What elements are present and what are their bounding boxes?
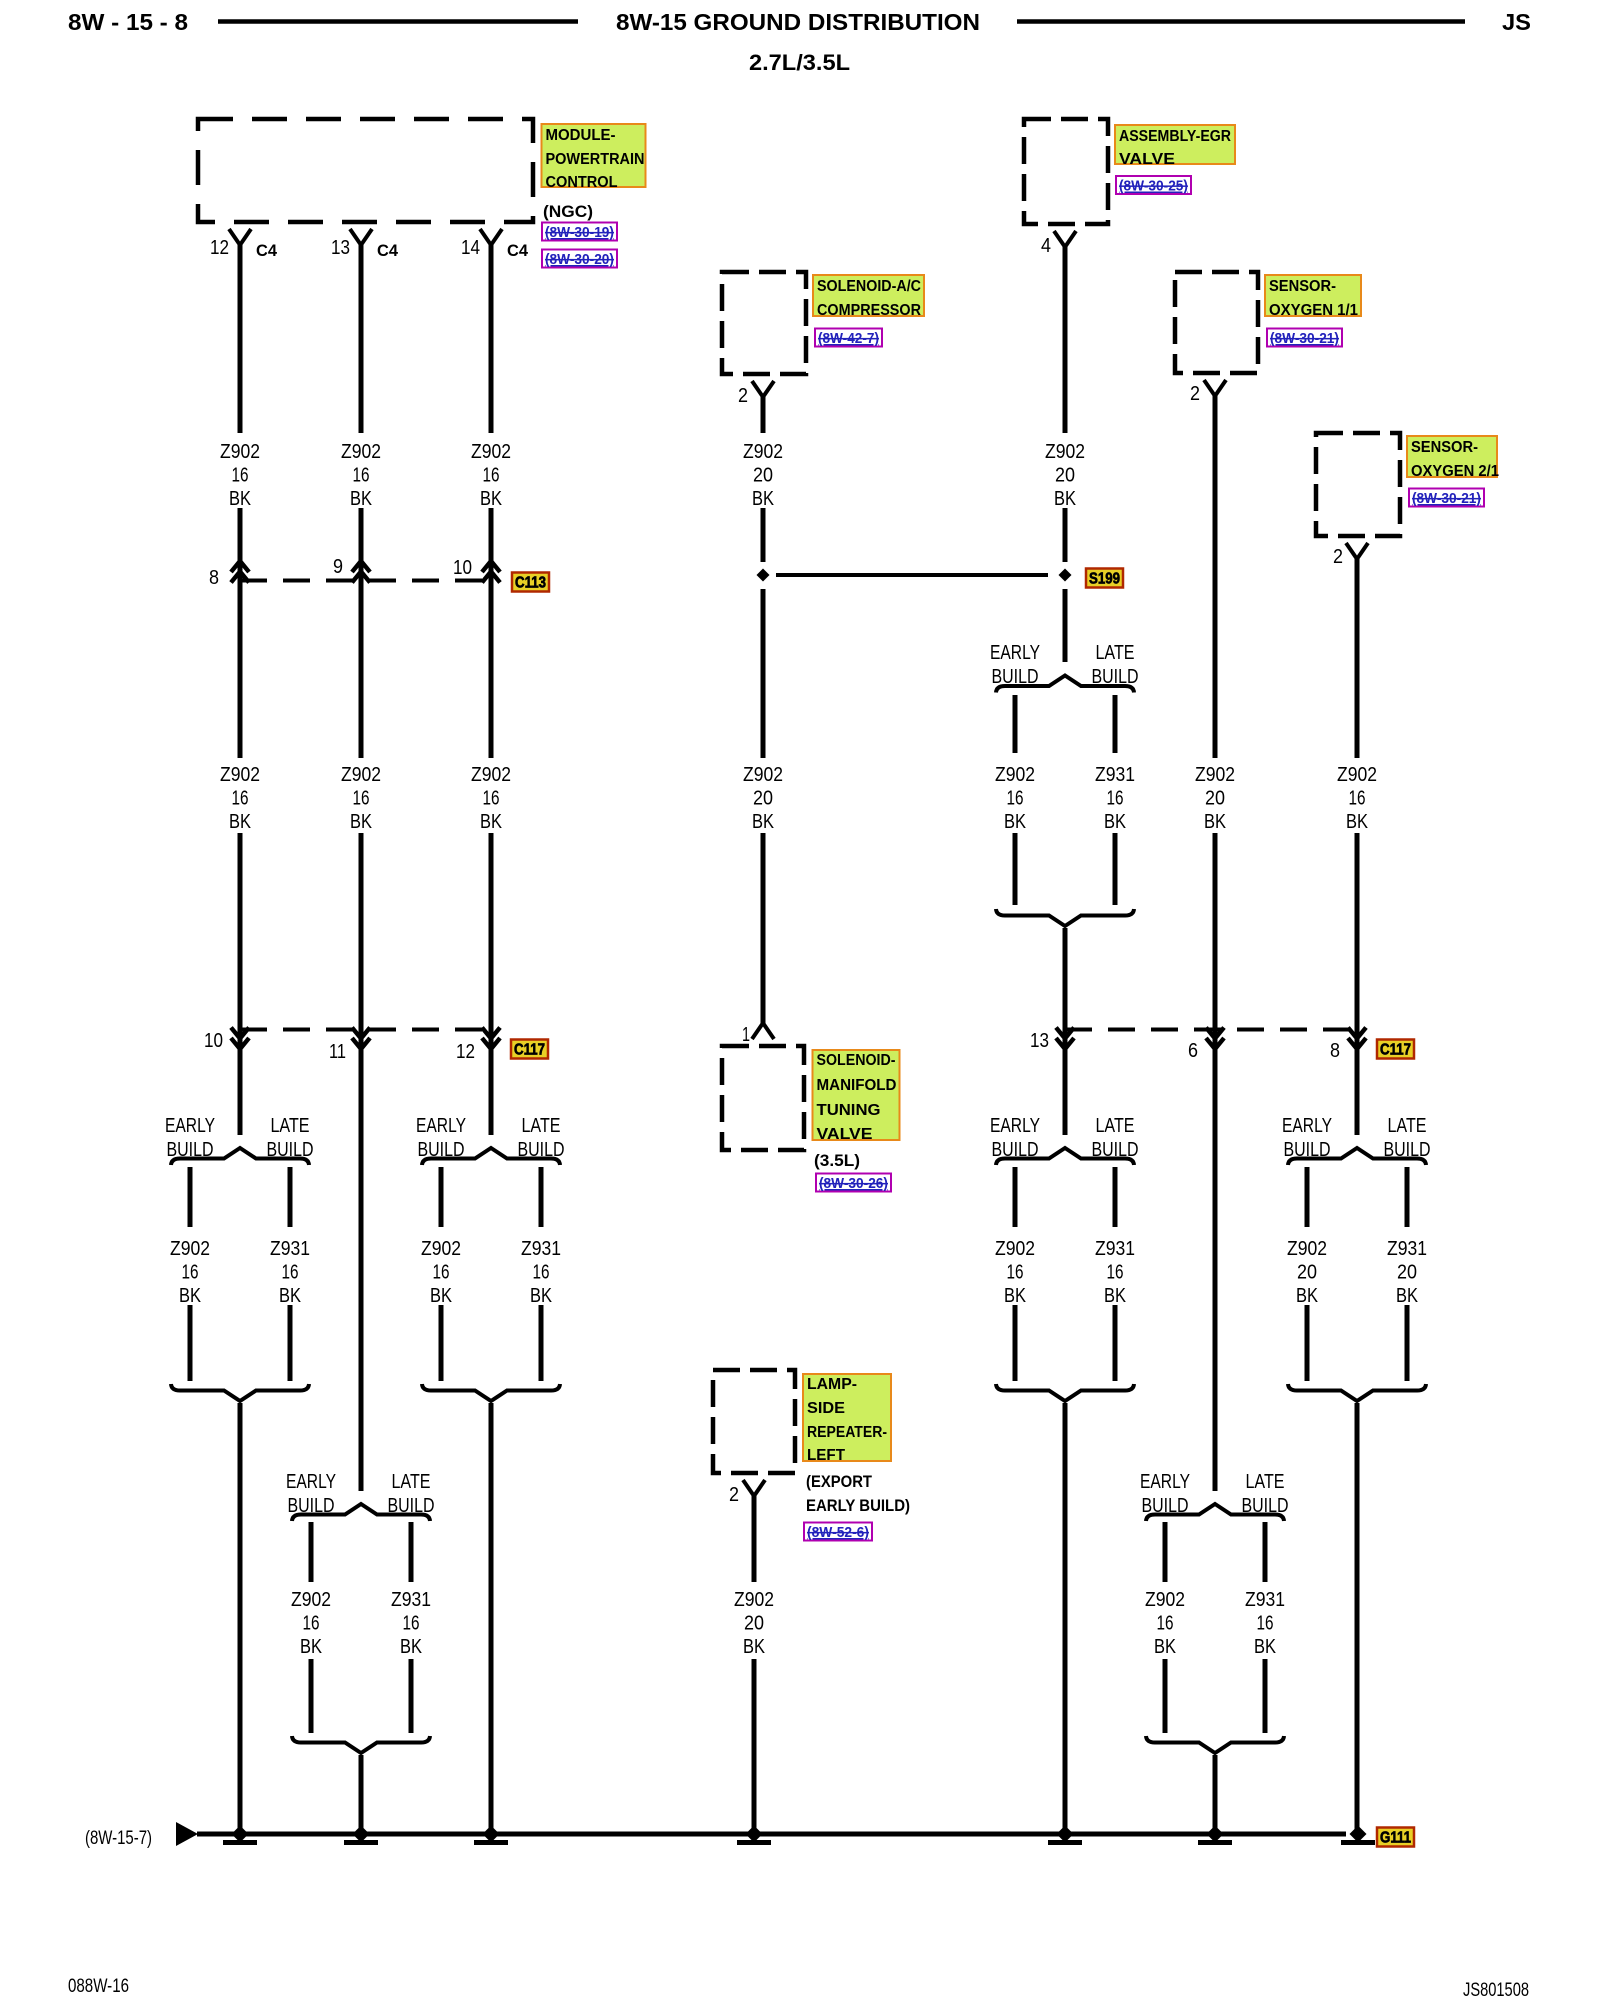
svg-text:8: 8 <box>1330 1040 1340 1062</box>
svg-text:(8W-30-26): (8W-30-26) <box>819 1175 888 1192</box>
svg-text:C113: C113 <box>515 575 546 592</box>
header rule right <box>1017 19 1465 24</box>
svg-text:Z902: Z902 <box>743 441 783 463</box>
svg-text:Z902: Z902 <box>1145 1589 1185 1611</box>
off-page reference (8W-15-7) <box>85 1828 152 1849</box>
svg-text:(NGC): (NGC) <box>543 202 593 221</box>
svg-text:MODULE-: MODULE- <box>546 127 616 144</box>
split early/late build (wire 2) <box>286 1471 435 1753</box>
svg-text:Z902: Z902 <box>1287 1238 1327 1260</box>
svg-text:10: 10 <box>204 1030 223 1052</box>
svg-text:BK: BK <box>1296 1285 1319 1307</box>
connector C117 pin 8 terminals <box>1330 1028 1366 1063</box>
svg-text:BK: BK <box>430 1285 453 1307</box>
svg-text:S199: S199 <box>1089 571 1120 588</box>
svg-text:Z902: Z902 <box>421 1238 461 1260</box>
svg-text:BUILD: BUILD <box>992 1139 1039 1161</box>
svg-text:Z902: Z902 <box>1195 764 1235 786</box>
svg-text:BK: BK <box>1204 811 1227 833</box>
title text 8W - 15 - 8 <box>68 9 188 35</box>
svg-text:VALVE: VALVE <box>1119 151 1175 168</box>
svg-text:Z902: Z902 <box>471 764 511 786</box>
connector C113 dashed link <box>240 579 491 583</box>
svg-text:LEFT: LEFT <box>807 1447 846 1464</box>
svg-text:SENSOR-: SENSOR- <box>1269 278 1336 295</box>
svg-text:BK: BK <box>1104 811 1127 833</box>
wire Z902 16 BK (wire 5 to ground bus) <box>1063 1403 1068 1832</box>
svg-text:BUILD: BUILD <box>388 1495 435 1517</box>
svg-text:BK: BK <box>1104 1285 1127 1307</box>
svg-text:4: 4 <box>1041 235 1051 257</box>
ground bus wire to G111 <box>197 1832 1346 1837</box>
connector C117 right dashed link <box>1065 1028 1357 1032</box>
split early/late build (wire 5 upper) <box>990 642 1139 926</box>
svg-text:BK: BK <box>1154 1636 1177 1658</box>
svg-text:BUILD: BUILD <box>1092 666 1139 688</box>
label C117 (left) <box>511 1040 548 1059</box>
label C117 (right) <box>1377 1040 1414 1059</box>
svg-text:Z902: Z902 <box>743 764 783 786</box>
svg-text:BK: BK <box>752 488 775 510</box>
svg-text:Z902: Z902 <box>291 1589 331 1611</box>
svg-text:Z902: Z902 <box>341 441 381 463</box>
svg-text:Z902: Z902 <box>995 1238 1035 1260</box>
svg-text:BUILD: BUILD <box>1142 1495 1189 1517</box>
svg-text:Z902: Z902 <box>220 764 260 786</box>
svg-text:Z902: Z902 <box>995 764 1035 786</box>
ground junction G111 (wire 2) <box>344 1826 378 1846</box>
svg-text:(8W-30-21): (8W-30-21) <box>1412 490 1481 507</box>
svg-text:(3.5L): (3.5L) <box>814 1151 860 1170</box>
label MODULE-POWERTRAIN CONTROL <box>542 124 646 221</box>
wire Z902 16 BK (PCM pin 13, x=361) <box>341 245 381 1491</box>
svg-text:BK: BK <box>743 1636 766 1658</box>
svg-text:SENSOR-: SENSOR- <box>1411 439 1478 456</box>
ground junction G111 (wire 1) <box>223 1826 257 1846</box>
connector C117 pin 11 terminals <box>329 1028 370 1064</box>
label C113 <box>512 573 549 592</box>
svg-text:BUILD: BUILD <box>167 1139 214 1161</box>
splice S199 link wire Z902 20 BK <box>757 569 1072 582</box>
svg-text:2.7L/3.5L: 2.7L/3.5L <box>749 50 850 75</box>
split early/late build (wire 1) <box>165 1115 314 1401</box>
hyperlink 8W-30-20 <box>542 250 617 269</box>
svg-text:BUILD: BUILD <box>992 666 1039 688</box>
svg-text:20: 20 <box>753 788 773 810</box>
svg-text:Z931: Z931 <box>521 1238 561 1260</box>
svg-text:16: 16 <box>1107 788 1124 810</box>
svg-text:6: 6 <box>1188 1040 1198 1062</box>
hyperlink 8W-30-26 <box>816 1174 891 1193</box>
svg-text:20: 20 <box>1397 1262 1417 1284</box>
svg-text:EARLY: EARLY <box>990 1115 1040 1137</box>
svg-text:ASSEMBLY-EGR: ASSEMBLY-EGR <box>1119 128 1231 145</box>
svg-text:Z931: Z931 <box>1245 1589 1285 1611</box>
svg-text:BK: BK <box>229 488 252 510</box>
hyperlink 8W-30-21 (O2 2/1) <box>1409 489 1484 508</box>
svg-text:Z902: Z902 <box>220 441 260 463</box>
ground junction G111 (wire 6) <box>1198 1826 1232 1846</box>
svg-text:BK: BK <box>1396 1285 1419 1307</box>
title text 8W-15 GROUND DISTRIBUTION <box>616 9 980 35</box>
svg-text:(EXPORT: (EXPORT <box>806 1472 873 1491</box>
svg-text:(8W-15-7): (8W-15-7) <box>85 1828 152 1849</box>
svg-text:(8W-30-21): (8W-30-21) <box>1270 330 1339 347</box>
manifold tuning valve pin 1 <box>742 1023 774 1046</box>
svg-text:12: 12 <box>456 1041 475 1063</box>
svg-text:BK: BK <box>300 1636 323 1658</box>
svg-text:C117: C117 <box>1380 1042 1411 1059</box>
svg-text:BUILD: BUILD <box>1242 1495 1289 1517</box>
wire Z902 16 BK (wire 6 to ground bus) <box>1213 1755 1218 1832</box>
svg-text:BK: BK <box>480 811 503 833</box>
hyperlink 8W-30-19 <box>542 223 617 242</box>
svg-text:11: 11 <box>329 1041 346 1063</box>
O2 1/1 pin 2 <box>1190 380 1226 405</box>
svg-text:Z902: Z902 <box>341 764 381 786</box>
A/C compressor pin 2 <box>738 381 774 407</box>
svg-text:Z931: Z931 <box>1095 764 1135 786</box>
svg-text:Z902: Z902 <box>1337 764 1377 786</box>
split early/late build (wire 6) <box>1140 1471 1289 1753</box>
hyperlink 8W-30-21 (O2 1/1) <box>1267 329 1342 348</box>
label SOLENOID-MANIFOLD TUNING VALVE <box>813 1050 900 1170</box>
ground junction G111 (wire 5) <box>1048 1826 1082 1846</box>
wire Z902 16 BK (O2 sensor 2/1 pin 2, x=1357) <box>1337 559 1377 1135</box>
svg-text:REPEATER-: REPEATER- <box>807 1424 887 1441</box>
svg-text:Z931: Z931 <box>1387 1238 1427 1260</box>
svg-text:BK: BK <box>530 1285 553 1307</box>
svg-text:BK: BK <box>179 1285 202 1307</box>
svg-text:BK: BK <box>229 811 252 833</box>
svg-text:20: 20 <box>1297 1262 1317 1284</box>
wire Z902 20 BK (A/C compressor to S199 to manifold valve, x=763) <box>743 397 783 1024</box>
svg-text:16: 16 <box>1007 788 1024 810</box>
svg-text:9: 9 <box>333 556 343 578</box>
svg-text:2: 2 <box>1190 383 1200 405</box>
svg-text:14: 14 <box>461 237 480 259</box>
svg-text:20: 20 <box>744 1613 764 1635</box>
svg-text:SOLENOID-: SOLENOID- <box>817 1052 896 1069</box>
connector C113 pin 10 terminals <box>453 557 500 583</box>
ground junction G111 (lamp wire) <box>737 1826 771 1846</box>
svg-text:LATE: LATE <box>1096 642 1135 664</box>
svg-text:LAMP-: LAMP- <box>807 1376 857 1393</box>
footer sheet number 088W-16 <box>68 1976 129 1997</box>
connector C117 pin 6 terminals <box>1188 1028 1224 1063</box>
svg-text:Z902: Z902 <box>1045 441 1085 463</box>
split early/late build (wire 5 lower) <box>990 1115 1139 1401</box>
component LAMP-SIDE REPEATER-LEFT box <box>713 1370 795 1473</box>
svg-text:16: 16 <box>1157 1613 1174 1635</box>
svg-text:8W - 15 - 8: 8W - 15 - 8 <box>68 9 188 35</box>
svg-text:Z931: Z931 <box>1095 1238 1135 1260</box>
svg-text:16: 16 <box>1107 1262 1124 1284</box>
EGR pin 4 <box>1041 231 1076 257</box>
svg-text:G111: G111 <box>1380 1830 1411 1847</box>
svg-text:2: 2 <box>729 1484 739 1506</box>
svg-text:16: 16 <box>1349 788 1366 810</box>
svg-text:CONTROL: CONTROL <box>546 174 618 191</box>
wire Z902 16 BK (wire 5 between merges) <box>1063 928 1068 1135</box>
svg-text:EARLY: EARLY <box>990 642 1040 664</box>
svg-text:16: 16 <box>1257 1613 1274 1635</box>
svg-text:COMPRESSOR: COMPRESSOR <box>817 302 921 319</box>
title text JS <box>1502 9 1531 35</box>
wire Z902 16 BK (wire 7 to ground bus) <box>1355 1403 1360 1832</box>
svg-text:BK: BK <box>1346 811 1369 833</box>
svg-text:BK: BK <box>350 811 373 833</box>
svg-text:12: 12 <box>210 237 229 259</box>
svg-text:Z931: Z931 <box>270 1238 310 1260</box>
svg-text:EARLY: EARLY <box>1140 1471 1190 1493</box>
svg-text:C4: C4 <box>377 241 399 260</box>
hyperlink 8W-30-25 <box>1116 176 1191 195</box>
hyperlink 8W-42-7 <box>815 329 882 348</box>
svg-text:BK: BK <box>752 811 775 833</box>
svg-text:(8W-52-6): (8W-52-6) <box>807 1524 869 1541</box>
svg-text:TUNING: TUNING <box>817 1102 881 1119</box>
ground junction G111 (wire 3) <box>474 1826 508 1846</box>
label ASSEMBLY-EGR VALVE <box>1115 125 1235 168</box>
svg-text:20: 20 <box>753 465 773 487</box>
svg-text:16: 16 <box>533 1262 550 1284</box>
svg-text:EARLY: EARLY <box>286 1471 336 1493</box>
svg-text:LATE: LATE <box>271 1115 310 1137</box>
svg-text:JS801508: JS801508 <box>1463 1980 1529 2000</box>
svg-text:BUILD: BUILD <box>1284 1139 1331 1161</box>
hyperlink 8W-52-6 <box>804 1523 872 1542</box>
svg-text:Z902: Z902 <box>471 441 511 463</box>
connector C117 pin 13 terminals <box>1030 1028 1074 1053</box>
svg-text:1: 1 <box>742 1024 750 1046</box>
svg-text:BK: BK <box>480 488 503 510</box>
wire Z902 16 BK (wire 2 to ground bus) <box>359 1755 364 1832</box>
svg-text:10: 10 <box>453 557 472 579</box>
wire Z902 16 BK (PCM pin 12, x=240) <box>220 245 260 1135</box>
svg-text:LATE: LATE <box>1246 1471 1285 1493</box>
svg-text:(8W-30-25): (8W-30-25) <box>1119 178 1188 195</box>
svg-text:16: 16 <box>483 788 500 810</box>
svg-text:BK: BK <box>350 488 373 510</box>
wire Z902 20 BK (O2 sensor 1/1 pin 2, x=1215) <box>1195 396 1235 1491</box>
svg-text:LATE: LATE <box>392 1471 431 1493</box>
svg-text:LATE: LATE <box>522 1115 561 1137</box>
header rule left <box>218 19 578 24</box>
connector C113 pin 8 terminals <box>209 561 249 589</box>
svg-text:MANIFOLD: MANIFOLD <box>817 1077 897 1094</box>
svg-text:BUILD: BUILD <box>267 1139 314 1161</box>
wire Z902 16 BK (wire 3 to ground bus) <box>489 1403 494 1832</box>
component ASSEMBLY-EGR VALVE box <box>1024 119 1108 224</box>
wire Z902 20 BK (lamp repeater pin 2 to ground bus, x=754) <box>734 1496 774 1832</box>
svg-text:BK: BK <box>1054 488 1077 510</box>
svg-text:(8W-30-20): (8W-30-20) <box>545 251 614 268</box>
svg-text:OXYGEN 2/1: OXYGEN 2/1 <box>1411 463 1499 480</box>
svg-text:16: 16 <box>433 1262 450 1284</box>
svg-text:(8W-30-19): (8W-30-19) <box>545 224 614 241</box>
connector C117 pin 12 terminals <box>456 1028 500 1064</box>
svg-text:16: 16 <box>182 1262 199 1284</box>
connector C113 pin 9 terminals <box>333 556 370 583</box>
svg-text:Z902: Z902 <box>734 1589 774 1611</box>
split early/late build (wire 3) <box>416 1115 565 1401</box>
svg-text:16: 16 <box>483 465 500 487</box>
svg-text:LATE: LATE <box>1388 1115 1427 1137</box>
svg-text:BK: BK <box>1004 1285 1027 1307</box>
wire Z902 16 BK (PCM pin 14, x=491) <box>471 245 511 1135</box>
svg-text:SIDE: SIDE <box>807 1400 845 1417</box>
svg-text:2: 2 <box>1333 546 1343 568</box>
svg-text:13: 13 <box>331 237 350 259</box>
connector C4 pin 12 <box>210 229 278 260</box>
svg-text:EARLY: EARLY <box>416 1115 466 1137</box>
svg-text:Z902: Z902 <box>170 1238 210 1260</box>
label G111 ground <box>1377 1828 1414 1847</box>
svg-text:EARLY BUILD): EARLY BUILD) <box>806 1496 910 1515</box>
connector C117 pin 10 terminals <box>204 1028 249 1053</box>
svg-text:16: 16 <box>232 465 249 487</box>
svg-text:BK: BK <box>279 1285 302 1307</box>
svg-text:16: 16 <box>282 1262 299 1284</box>
svg-text:8: 8 <box>209 567 219 589</box>
connector C117 left dashed link <box>240 1028 491 1032</box>
split early/late build (wire 7) <box>1282 1115 1431 1401</box>
label S199 <box>1086 569 1123 588</box>
svg-text:POWERTRAIN: POWERTRAIN <box>546 151 645 168</box>
wire Z902 20 BK (EGR valve pin 4 to S199, x=1065) <box>1045 247 1085 662</box>
svg-text:BUILD: BUILD <box>418 1139 465 1161</box>
svg-text:16: 16 <box>353 465 370 487</box>
svg-text:16: 16 <box>353 788 370 810</box>
svg-text:16: 16 <box>232 788 249 810</box>
svg-text:Z931: Z931 <box>391 1589 431 1611</box>
wire Z902 16 BK (wire 1 to ground bus) <box>238 1403 243 1832</box>
off-page arrow <box>176 1822 198 1846</box>
connector C4 pin 14 <box>461 229 529 260</box>
component SENSOR-OXYGEN 1/1 box <box>1175 272 1258 373</box>
svg-text:20: 20 <box>1205 788 1225 810</box>
label SENSOR-OXYGEN 1/1 <box>1265 275 1361 319</box>
svg-text:BK: BK <box>1254 1636 1277 1658</box>
svg-text:C4: C4 <box>256 241 278 260</box>
svg-text:20: 20 <box>1055 465 1075 487</box>
subtitle 2.7L/3.5L <box>749 50 850 75</box>
svg-text:OXYGEN 1/1: OXYGEN 1/1 <box>1269 302 1358 319</box>
svg-text:C4: C4 <box>507 241 529 260</box>
svg-text:LATE: LATE <box>1096 1115 1135 1137</box>
label SENSOR-OXYGEN 2/1 <box>1407 436 1499 480</box>
svg-text:2: 2 <box>738 385 748 407</box>
svg-text:16: 16 <box>303 1613 320 1635</box>
svg-text:JS: JS <box>1502 9 1531 35</box>
component SOLENOID-A/C COMPRESSOR box <box>722 272 806 374</box>
footer code JS801508 <box>1463 1980 1529 2000</box>
svg-text:BK: BK <box>400 1636 423 1658</box>
svg-text:C117: C117 <box>514 1042 545 1059</box>
lamp repeater pin 2 <box>729 1480 765 1506</box>
svg-text:BK: BK <box>1004 811 1027 833</box>
module U1 MODULE-POWERTRAIN CONTROL (NGC) box <box>198 119 533 222</box>
svg-text:8W-15 GROUND DISTRIBUTION: 8W-15 GROUND DISTRIBUTION <box>616 9 980 35</box>
svg-text:BUILD: BUILD <box>518 1139 565 1161</box>
svg-text:BUILD: BUILD <box>1384 1139 1431 1161</box>
component SOLENOID-MANIFOLD TUNING VALVE box <box>722 1046 804 1150</box>
svg-text:VALVE: VALVE <box>817 1126 873 1143</box>
label SOLENOID-A/C COMPRESSOR <box>813 275 924 319</box>
O2 2/1 pin 2 <box>1333 543 1368 568</box>
svg-text:088W-16: 088W-16 <box>68 1976 129 1997</box>
svg-text:SOLENOID-A/C: SOLENOID-A/C <box>817 278 921 295</box>
svg-text:BUILD: BUILD <box>288 1495 335 1517</box>
svg-text:EARLY: EARLY <box>165 1115 215 1137</box>
connector C4 pin 13 <box>331 229 399 260</box>
svg-text:16: 16 <box>1007 1262 1024 1284</box>
label LAMP-SIDE REPEATER-LEFT <box>803 1374 910 1515</box>
svg-text:16: 16 <box>403 1613 420 1635</box>
svg-text:BUILD: BUILD <box>1092 1139 1139 1161</box>
svg-text:13: 13 <box>1030 1030 1049 1052</box>
ground junction G111 (wire 7) <box>1341 1826 1375 1846</box>
svg-text:EARLY: EARLY <box>1282 1115 1332 1137</box>
svg-text:(8W-42-7): (8W-42-7) <box>818 330 879 347</box>
component SENSOR-OXYGEN 2/1 box <box>1316 433 1400 536</box>
